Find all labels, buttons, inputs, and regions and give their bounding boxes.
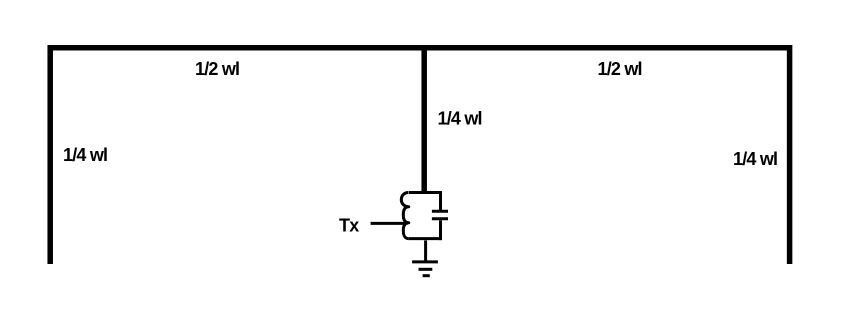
svg-text:1/4 wl: 1/4 wl — [733, 149, 777, 169]
svg-text:1/2 wl: 1/2 wl — [195, 59, 239, 79]
svg-text:1/2 wl: 1/2 wl — [598, 59, 642, 79]
svg-text:1/4 wl: 1/4 wl — [438, 109, 482, 129]
svg-text:1/4 wl: 1/4 wl — [63, 145, 107, 165]
svg-text:Tx: Tx — [339, 216, 359, 236]
